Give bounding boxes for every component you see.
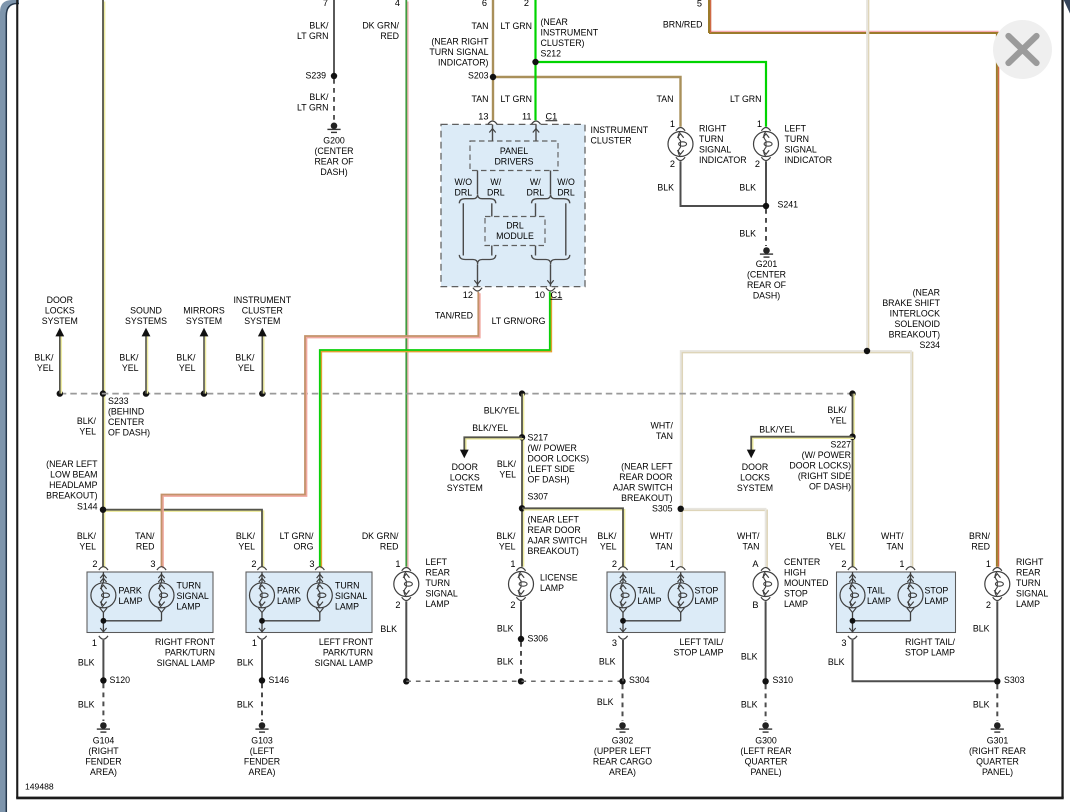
svg-text:1: 1 <box>252 638 257 648</box>
svg-text:S120: S120 <box>110 675 131 685</box>
svg-text:13: 13 <box>478 111 488 121</box>
splice S146 <box>259 677 265 683</box>
svg-text:TURN: TURN <box>335 580 359 590</box>
wire TAN/RED cluster pin 12 to right front turn signal lamp pin 3 <box>163 293 480 568</box>
svg-text:(LEFT SIDE: (LEFT SIDE <box>528 464 575 474</box>
svg-text:2: 2 <box>612 559 617 569</box>
svg-text:QUARTER: QUARTER <box>745 757 788 767</box>
svg-text:C1: C1 <box>551 290 563 300</box>
svg-text:BLK: BLK <box>973 700 990 710</box>
svg-text:S241: S241 <box>778 200 799 210</box>
svg-text:AJAR SWITCH: AJAR SWITCH <box>613 483 673 493</box>
svg-text:HIGH: HIGH <box>784 568 806 578</box>
svg-text:LAMP: LAMP <box>784 599 808 609</box>
svg-text:(NEAR LEFT: (NEAR LEFT <box>46 459 98 469</box>
center high mounted stop lamp bulb <box>761 568 770 571</box>
svg-text:S203: S203 <box>468 71 489 81</box>
svg-text:RIGHT FRONT: RIGHT FRONT <box>155 637 216 647</box>
splice S233 <box>100 390 106 396</box>
svg-text:CLUSTER: CLUSTER <box>242 306 283 316</box>
svg-text:PARK: PARK <box>277 586 300 596</box>
splice S305 <box>678 506 684 512</box>
svg-text:SIGNAL: SIGNAL <box>177 591 209 601</box>
svg-text:REAR CARGO: REAR CARGO <box>593 757 652 767</box>
svg-text:BREAKOUT): BREAKOUT) <box>46 491 97 501</box>
right tail/stop lamp box <box>837 572 956 633</box>
brace merge right <box>532 255 570 264</box>
svg-text:YEL: YEL <box>37 363 54 373</box>
svg-text:SIGNAL: SIGNAL <box>426 589 458 599</box>
svg-text:DRL: DRL <box>506 221 524 231</box>
svg-text:LT GRN: LT GRN <box>501 94 532 104</box>
wire BLK dashed S310 to G300 <box>765 685 767 722</box>
svg-text:SYSTEM: SYSTEM <box>737 483 773 493</box>
svg-text:LICENSE: LICENSE <box>540 573 578 583</box>
svg-text:S307: S307 <box>528 492 549 502</box>
right front park/turn signal lamp box <box>87 572 213 633</box>
splice S304 <box>619 678 625 684</box>
svg-text:DOOR: DOOR <box>452 462 478 472</box>
node license ground tap <box>518 678 524 684</box>
svg-text:BLK/: BLK/ <box>176 353 196 363</box>
svg-text:TAN: TAN <box>657 94 674 104</box>
svg-text:INDICATOR: INDICATOR <box>699 155 747 165</box>
svg-text:BLK/: BLK/ <box>77 531 97 541</box>
splice S212 <box>532 59 538 65</box>
svg-text:LT GRN: LT GRN <box>297 31 328 41</box>
svg-text:C1: C1 <box>546 111 558 121</box>
svg-text:LOCKS: LOCKS <box>45 306 75 316</box>
svg-text:STOP: STOP <box>925 586 949 596</box>
svg-text:AREA): AREA) <box>609 767 636 777</box>
splice S203 <box>490 74 496 80</box>
svg-text:(NEAR RIGHT: (NEAR RIGHT <box>431 37 489 47</box>
svg-text:SIGNAL: SIGNAL <box>1016 589 1048 599</box>
splice S241 <box>763 203 769 209</box>
svg-text:LEFT FRONT: LEFT FRONT <box>319 637 374 647</box>
wire BLK/YEL S217 branch to door locks system arrow <box>466 439 524 452</box>
svg-text:BLK: BLK <box>497 657 514 667</box>
panel drivers stub right <box>550 171 552 195</box>
svg-text:YEL: YEL <box>79 427 96 437</box>
wire BLK left rear lamp pin 2 to rear dashed bus <box>405 601 407 681</box>
wire BLK dashed S146 to G103 <box>261 684 263 722</box>
svg-text:BLK/: BLK/ <box>497 459 517 469</box>
svg-text:W/O: W/O <box>455 177 473 187</box>
svg-text:(W/ POWER: (W/ POWER <box>528 443 577 453</box>
svg-text:S310: S310 <box>773 675 794 685</box>
svg-text:AREA): AREA) <box>90 767 117 777</box>
svg-text:BLK/: BLK/ <box>827 405 847 415</box>
svg-text:SIGNAL LAMP: SIGNAL LAMP <box>157 658 215 668</box>
svg-text:(LEFT: (LEFT <box>250 746 275 756</box>
svg-text:BRN/: BRN/ <box>969 531 991 541</box>
svg-text:YEL: YEL <box>179 363 196 373</box>
svg-text:DRIVERS: DRIVERS <box>494 157 533 167</box>
svg-text:BLK: BLK <box>78 658 95 668</box>
wire BLK/YEL mid drop to S217 to S307 to license lamp pin 1 <box>523 394 525 567</box>
svg-text:STOP: STOP <box>784 589 808 599</box>
svg-text:STOP LAMP: STOP LAMP <box>673 648 723 658</box>
svg-text:BLK: BLK <box>739 229 756 239</box>
svg-text:10: 10 <box>535 290 545 300</box>
svg-text:TAN: TAN <box>472 94 489 104</box>
svg-text:3: 3 <box>841 638 846 648</box>
svg-text:1: 1 <box>395 559 400 569</box>
svg-text:SYSTEMS: SYSTEMS <box>125 316 167 326</box>
svg-text:(LEFT REAR: (LEFT REAR <box>740 746 791 756</box>
svg-text:S306: S306 <box>528 634 549 644</box>
svg-text:WHT/: WHT/ <box>651 421 674 431</box>
svg-text:FENDER: FENDER <box>85 757 121 767</box>
wire BLK/LT GRN pin 7 to S239 <box>333 0 335 76</box>
svg-text:2: 2 <box>92 559 97 569</box>
svg-text:MODULE: MODULE <box>496 231 534 241</box>
svg-text:PARK/TURN: PARK/TURN <box>165 648 215 658</box>
right turn signal indicator bulb <box>676 128 685 131</box>
svg-text:LAMP: LAMP <box>695 596 719 606</box>
splice S307 <box>519 505 525 511</box>
svg-text:REAR DOOR: REAR DOOR <box>619 472 672 482</box>
svg-text:W/O: W/O <box>557 177 575 187</box>
wire BLK left indicator pin 2 to S241 <box>765 161 767 206</box>
svg-text:SIGNAL: SIGNAL <box>699 145 731 155</box>
svg-text:BLK/: BLK/ <box>77 416 97 426</box>
svg-text:G103: G103 <box>251 736 273 746</box>
wire WHT/TAN top to S234 <box>868 0 870 351</box>
dashed bus from door-locks arrow through S233 to S227 drop <box>60 393 853 395</box>
svg-text:G200: G200 <box>323 136 345 146</box>
svg-text:S146: S146 <box>269 675 290 685</box>
svg-text:7: 7 <box>323 0 328 8</box>
svg-text:AJAR SWITCH: AJAR SWITCH <box>528 536 588 546</box>
splice S144 <box>100 507 106 513</box>
svg-text:LT GRN: LT GRN <box>297 103 328 113</box>
svg-text:TAN/RED: TAN/RED <box>435 311 473 321</box>
svg-text:RED: RED <box>380 541 399 551</box>
cluster pin 10 stub with down arrow <box>550 264 552 286</box>
svg-text:(BEHIND: (BEHIND <box>108 407 144 417</box>
svg-text:BLK: BLK <box>657 183 674 193</box>
node BLK/YEL mid drop <box>519 390 525 396</box>
svg-text:DOOR LOCKS): DOOR LOCKS) <box>789 461 851 471</box>
svg-text:BREAKOUT): BREAKOUT) <box>889 330 940 340</box>
svg-text:W/: W/ <box>530 177 541 187</box>
node mirrors system tap <box>201 390 207 396</box>
wire BLK dashed S241 to G201 <box>765 209 767 246</box>
left turn signal indicator bulb <box>761 128 770 131</box>
arrow to DOOR LOCKS SYSTEM <box>60 336 62 394</box>
wire WHT/TAN S305 branch to center high mounted stop lamp pin A <box>682 510 767 568</box>
svg-text:ORG: ORG <box>293 541 313 551</box>
svg-text:BLK: BLK <box>597 697 614 707</box>
svg-text:HEADLAMP: HEADLAMP <box>49 480 98 490</box>
svg-text:2: 2 <box>524 0 529 8</box>
svg-text:TAN: TAN <box>743 541 760 551</box>
svg-text:G201: G201 <box>756 259 778 269</box>
svg-text:LAMP: LAMP <box>1016 599 1040 609</box>
svg-text:4: 4 <box>395 0 400 8</box>
svg-text:(CENTER: (CENTER <box>747 270 786 280</box>
svg-text:S303: S303 <box>1004 675 1025 685</box>
svg-text:REAR: REAR <box>426 568 450 578</box>
splice S217 <box>519 434 525 440</box>
svg-text:SYSTEM: SYSTEM <box>244 316 280 326</box>
right tail lamp and stop lamp bulbs <box>848 567 857 570</box>
node sound systems tap <box>143 390 149 396</box>
svg-text:OF DASH): OF DASH) <box>108 428 150 438</box>
svg-text:2: 2 <box>986 600 991 610</box>
svg-text:BLK: BLK <box>497 624 514 634</box>
svg-text:SYSTEM: SYSTEM <box>186 316 222 326</box>
svg-text:LEFT: LEFT <box>785 124 807 134</box>
svg-text:WHT/: WHT/ <box>650 531 673 541</box>
svg-text:MIRRORS: MIRRORS <box>183 306 225 316</box>
brace split right (W/ DRL vs W/O DRL) <box>532 194 570 203</box>
svg-text:(NEAR LEFT: (NEAR LEFT <box>528 515 580 525</box>
svg-text:2: 2 <box>510 600 515 610</box>
svg-text:BLK: BLK <box>739 183 756 193</box>
svg-text:SYSTEM: SYSTEM <box>447 483 483 493</box>
svg-text:LOCKS: LOCKS <box>450 473 480 483</box>
panel drivers stub left <box>477 171 479 195</box>
wire WHT/TAN S234 branch right down to right stop lamp pin 1 <box>869 353 913 569</box>
svg-text:PARK: PARK <box>119 586 142 596</box>
panel drivers box <box>470 141 558 171</box>
svg-text:TURN: TURN <box>426 578 450 588</box>
svg-text:1: 1 <box>670 119 675 129</box>
svg-text:DOOR: DOOR <box>47 295 73 305</box>
svg-text:DOOR LOCKS): DOOR LOCKS) <box>528 454 590 464</box>
node BLK/YEL right drop <box>849 390 855 396</box>
wire BLK left front lamp pin 1 to S146 <box>261 640 263 681</box>
svg-text:BLK: BLK <box>237 658 254 668</box>
svg-text:BLK: BLK <box>599 657 616 667</box>
svg-text:INTERLOCK: INTERLOCK <box>890 309 940 319</box>
wire BLK left tail lamp pin 3 to S304 <box>622 640 624 681</box>
svg-text:3: 3 <box>612 638 617 648</box>
svg-text:G301: G301 <box>987 736 1009 746</box>
svg-text:INDICATOR): INDICATOR) <box>438 58 489 68</box>
svg-text:LAMP: LAMP <box>925 596 949 606</box>
svg-text:G300: G300 <box>755 736 777 746</box>
svg-text:S217: S217 <box>528 433 549 443</box>
svg-text:BLK/: BLK/ <box>826 531 846 541</box>
left tail/stop lamp box <box>607 572 725 633</box>
svg-text:BLK: BLK <box>828 657 845 667</box>
svg-text:LOW BEAM: LOW BEAM <box>50 470 97 480</box>
svg-text:DRL: DRL <box>454 188 472 198</box>
svg-text:LAMP: LAMP <box>119 596 143 606</box>
svg-text:(NEAR LEFT: (NEAR LEFT <box>621 462 673 472</box>
svg-text:LT GRN: LT GRN <box>501 21 532 31</box>
svg-text:TAIL: TAIL <box>867 586 885 596</box>
svg-text:RIGHT TAIL/: RIGHT TAIL/ <box>905 637 955 647</box>
svg-text:INSTRUMENT: INSTRUMENT <box>233 295 291 305</box>
svg-text:3: 3 <box>150 559 155 569</box>
svg-text:TURN: TURN <box>177 580 201 590</box>
svg-text:YEL: YEL <box>499 541 516 551</box>
svg-text:S305: S305 <box>652 504 673 514</box>
splice S239 <box>331 73 337 79</box>
wire BLK dashed S120 to G104 <box>102 684 104 722</box>
svg-text:LEFT: LEFT <box>426 557 448 567</box>
svg-text:BLK: BLK <box>973 624 990 634</box>
svg-text:3: 3 <box>309 559 314 569</box>
svg-text:BLK/: BLK/ <box>597 531 617 541</box>
svg-text:STOP: STOP <box>695 586 719 596</box>
svg-text:SOLENOID: SOLENOID <box>895 319 940 329</box>
svg-text:G302: G302 <box>612 736 634 746</box>
svg-text:S227: S227 <box>830 440 851 450</box>
svg-text:TAN: TAN <box>472 21 489 31</box>
svg-text:DK GRN/: DK GRN/ <box>362 531 399 541</box>
svg-text:MOUNTED: MOUNTED <box>784 578 828 588</box>
svg-text:YEL: YEL <box>238 363 255 373</box>
svg-text:BLK: BLK <box>741 652 758 662</box>
svg-text:LAMP: LAMP <box>277 596 301 606</box>
arrow to MIRRORS SYSTEM <box>205 336 207 394</box>
svg-text:PANEL): PANEL) <box>750 767 781 777</box>
close button <box>993 20 1052 79</box>
svg-text:PANEL: PANEL <box>500 146 528 156</box>
svg-text:INDICATOR: INDICATOR <box>785 155 833 165</box>
svg-text:INSTRUMENT: INSTRUMENT <box>591 125 649 135</box>
svg-text:TURN SIGNAL: TURN SIGNAL <box>429 47 488 57</box>
wire W/ DRL right out of DRL module <box>535 246 537 256</box>
wire BLK/YEL right drop to S227 to right tail lamp pin 2 <box>853 394 855 567</box>
svg-text:RIGHT: RIGHT <box>699 124 727 134</box>
svg-text:AREA): AREA) <box>249 767 276 777</box>
svg-text:DRL: DRL <box>526 188 544 198</box>
node door locks system tap <box>57 390 63 396</box>
svg-text:1: 1 <box>510 559 515 569</box>
svg-text:FENDER: FENDER <box>244 757 280 767</box>
wire BLK right rear lamp pin 2 to S303 <box>996 601 998 681</box>
svg-text:DOOR: DOOR <box>742 462 768 472</box>
ground G201 <box>763 247 770 254</box>
svg-text:CLUSTER): CLUSTER) <box>541 38 585 48</box>
node instrument cluster system tap <box>259 390 265 396</box>
splice S306 <box>518 636 524 642</box>
svg-text:STOP LAMP: STOP LAMP <box>905 648 955 658</box>
left front park lamp and turn signal lamp bulbs <box>257 567 266 570</box>
svg-text:1: 1 <box>986 559 991 569</box>
svg-text:(RIGHT: (RIGHT <box>88 746 119 756</box>
svg-text:W/: W/ <box>490 177 501 187</box>
svg-text:RED: RED <box>136 541 155 551</box>
license lamp bulb <box>516 568 525 571</box>
svg-text:WHT/: WHT/ <box>881 531 904 541</box>
wire LT GRN pin 2 to S212 to instrument cluster pin 11 <box>534 0 536 120</box>
svg-text:G104: G104 <box>93 736 115 746</box>
svg-text:(RIGHT REAR: (RIGHT REAR <box>969 746 1026 756</box>
wire BLK right indicator pin 2 to S241 <box>681 161 767 206</box>
left tail lamp and stop lamp bulbs <box>618 567 627 570</box>
svg-text:6: 6 <box>482 0 487 8</box>
wire BLK dashed S304 to G302 <box>622 685 624 722</box>
svg-text:LAMP: LAMP <box>867 596 891 606</box>
svg-text:(RIGHT SIDE: (RIGHT SIDE <box>798 471 851 481</box>
svg-text:BLK/: BLK/ <box>34 353 54 363</box>
svg-text:TAN: TAN <box>887 541 904 551</box>
svg-text:DRL: DRL <box>487 188 505 198</box>
svg-text:YEL: YEL <box>600 541 617 551</box>
cluster pin 12 stub with down arrow <box>477 264 479 286</box>
svg-text:S144: S144 <box>77 502 98 512</box>
wire BLK dashed S306 to rear bus <box>520 642 522 678</box>
svg-text:BLK: BLK <box>237 700 254 710</box>
svg-text:(W/ POWER: (W/ POWER <box>802 450 851 460</box>
wire BLK license lamp pin 2 to S306 <box>520 601 522 639</box>
wire TAN pin 6 to S203 to instrument cluster pin 13 <box>492 0 494 120</box>
wire W/ DRL left out of DRL module <box>491 246 493 256</box>
svg-text:S234: S234 <box>919 340 940 350</box>
svg-text:S233: S233 <box>108 396 129 406</box>
splice S303 <box>994 678 1000 684</box>
splice S310 <box>762 678 768 684</box>
svg-text:REAR: REAR <box>1016 568 1040 578</box>
svg-text:A: A <box>752 559 759 569</box>
svg-text:LEFT TAIL/: LEFT TAIL/ <box>679 637 724 647</box>
svg-text:CENTER: CENTER <box>108 417 144 427</box>
wire BLK right front lamp pin 1 to S120 <box>102 640 104 681</box>
wire W/ DRL left into DRL module <box>491 203 493 216</box>
splice S120 <box>100 677 106 683</box>
svg-text:CLUSTER: CLUSTER <box>591 135 632 145</box>
svg-text:LAMP: LAMP <box>638 596 662 606</box>
svg-text:TAN/: TAN/ <box>135 531 155 541</box>
svg-text:SOUND: SOUND <box>130 306 162 316</box>
svg-text:1: 1 <box>899 559 904 569</box>
svg-text:2: 2 <box>755 159 760 169</box>
wire LT GRN/ORG cluster pin 10 to left front turn signal lamp pin 3 <box>321 293 551 568</box>
svg-text:2: 2 <box>251 559 256 569</box>
svg-text:DASH): DASH) <box>320 167 347 177</box>
svg-text:BRN/RED: BRN/RED <box>663 20 703 30</box>
svg-text:S239: S239 <box>305 71 326 81</box>
cluster pin 11 stub with up arrow <box>535 124 537 141</box>
svg-text:BLK: BLK <box>78 700 95 710</box>
svg-text:TAN: TAN <box>656 431 673 441</box>
splice S227 <box>849 434 855 440</box>
left rear turn signal lamp bulb <box>402 568 411 571</box>
svg-text:OF DASH): OF DASH) <box>528 475 570 485</box>
svg-text:TURN: TURN <box>1016 578 1040 588</box>
svg-text:TAN: TAN <box>656 541 673 551</box>
arrow to SOUND SYSTEMS <box>147 336 149 394</box>
svg-text:YEL: YEL <box>238 541 255 551</box>
svg-text:BLK/: BLK/ <box>235 353 255 363</box>
svg-text:RED: RED <box>380 31 399 41</box>
wire W/O DRL right bypass <box>565 203 567 255</box>
wire BLK center stop lamp pin B to S310 <box>765 601 767 681</box>
right rear turn signal lamp bulb <box>993 568 1002 571</box>
svg-text:BLK/YEL: BLK/YEL <box>472 423 508 433</box>
svg-text:REAR OF: REAR OF <box>747 280 787 290</box>
wire W/ DRL right into DRL module <box>535 203 537 216</box>
svg-text:TURN: TURN <box>785 134 809 144</box>
ground G301 <box>994 722 1001 729</box>
svg-text:PARK/TURN: PARK/TURN <box>323 648 373 658</box>
wire BRN/RED pin 5 to right rear turn signal lamp pin 1 <box>709 30 999 32</box>
svg-text:B: B <box>752 600 758 610</box>
svg-text:REAR DOOR: REAR DOOR <box>528 525 581 535</box>
rear dashed ground bus to S304 <box>406 680 622 682</box>
svg-text:TAIL: TAIL <box>638 586 656 596</box>
left front park/turn signal lamp box <box>246 572 372 633</box>
svg-text:12: 12 <box>463 290 473 300</box>
